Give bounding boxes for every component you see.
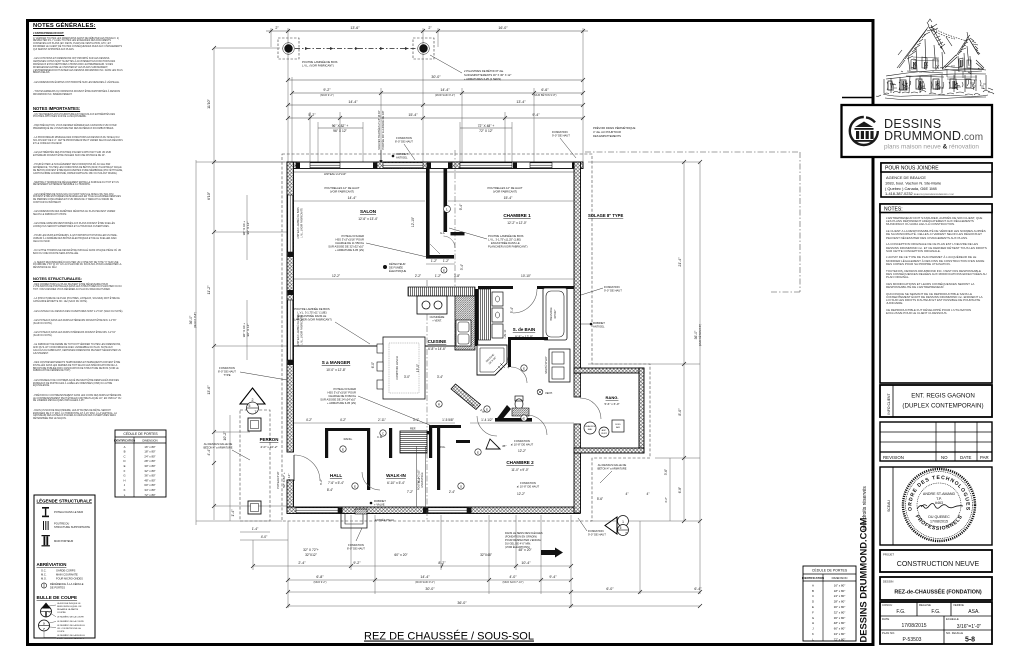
svg-text:6'10": 6'10" (207, 191, 211, 200)
svg-text:K: K (124, 488, 126, 492)
svg-text:9'-2": 9'-2" (323, 88, 331, 92)
dash-dot overhang line top right (585, 152, 800, 292)
svg-text:+ ARMATURES 6-#5 (2 SENS): + ARMATURES 6-#5 (2 SENS) (464, 77, 501, 81)
svg-text:NOTES:: NOTES: (884, 207, 903, 213)
legende structurale box (34, 495, 95, 640)
svg-text:COUPE: COUPE (57, 631, 65, 633)
pier P2 dashed square (413, 38, 434, 59)
svg-text:34" x 80": 34" x 80" (144, 488, 155, 492)
svg-text:8'-0" DE HAUT: 8'-0" DE HAUT (395, 140, 413, 144)
pier P2 circle (419, 44, 427, 52)
window openings in walls (white with sill lines) (296, 163, 552, 513)
svg-text:36'-0": 36'-0" (694, 330, 698, 339)
annex RANG walls (574, 368, 644, 453)
svg-text:H: H (812, 621, 814, 625)
svg-text:6'-6": 6'-6" (541, 88, 549, 92)
symbol poteau dans le mur (42, 507, 49, 517)
svg-text:E: E (486, 407, 488, 411)
svg-text:60"X32": 60"X32" (554, 310, 557, 319)
svg-text:PLAN NO.: PLAN NO. (882, 631, 895, 635)
left vertical dim lines (196, 48, 292, 525)
kitchen counter top band (408, 287, 475, 296)
svg-text:LING.: LING. (438, 445, 446, 449)
svg-text:REALISE: REALISE (919, 603, 931, 607)
svg-text:M.C.: M.C. (41, 573, 47, 577)
svg-text:4" dia. AU POURTOUR: 4" dia. AU POURTOUR (593, 130, 621, 134)
svg-text:PLANCHER (VOIR FABRICANT): PLANCHER (VOIR FABRICANT) (488, 245, 528, 249)
svg-text:STRUCTURE SUPPORTANTE: STRUCTURE SUPPORTANTE (54, 525, 90, 529)
svg-text:7'-6" x 5'-4": 7'-6" x 5'-4" (328, 481, 344, 485)
svg-text:POUTRE LAMINÉE DE BOIS: POUTRE LAMINÉE DE BOIS (302, 59, 338, 64)
svg-text:POTEAU D'ACIER: POTEAU D'ACIER (334, 387, 357, 391)
svg-text:CUISINE: CUISINE (428, 339, 447, 344)
svg-text:POUR NOUS JOINDRE: POUR NOUS JOINDRE (885, 166, 939, 172)
svg-text:36" x 80": 36" x 80" (144, 474, 155, 478)
svg-text:2 PILASTRES DE BÉTON 8" dia.: 2 PILASTRES DE BÉTON 8" dia. (464, 68, 504, 73)
svg-text:30" x 80": 30" x 80" (144, 464, 155, 468)
pour nous joindre box (881, 163, 992, 197)
closet U walls center (426, 168, 465, 259)
svg-text:2'-4": 2'-4" (298, 561, 306, 565)
svg-text:E: E (812, 605, 814, 609)
svg-text:5'-6" x 6'-0": 5'-6" x 6'-0" (604, 402, 619, 406)
svg-text:LE NUMÉRO DE LA COUPE: LE NUMÉRO DE LA COUPE (57, 620, 84, 623)
svg-text:DIMENSION: DIMENSION (832, 576, 848, 580)
svg-text:+ ARMATURE 6-#5 (2S): + ARMATURE 6-#5 (2S) (335, 248, 364, 252)
svg-text:5'-2": 5'-2" (308, 113, 316, 117)
svg-text:2": 2" (428, 26, 432, 30)
svg-text:60" x 80": 60" x 80" (834, 627, 846, 631)
section bubble right bottom (605, 517, 617, 534)
svg-text:F.G.: F.G. (931, 609, 940, 615)
door arc chambre2 (477, 416, 497, 436)
toilet (515, 399, 523, 409)
svg-text:IDENTIFICATION: IDENTIFICATION (114, 439, 135, 443)
svg-text:#463: #463 (935, 501, 943, 505)
svg-text:DES EMPATTEMENTS: DES EMPATTEMENTS (593, 134, 621, 138)
svg-text:3'-2": 3'-2" (664, 497, 668, 503)
svg-text:LINTEAU 2-2"x10": LINTEAU 2-2"x10" (324, 172, 346, 176)
svg-text:VERIFIE: VERIFIE (953, 603, 964, 607)
svg-text:LÉGENDE STRUCTURALE: LÉGENDE STRUCTURALE (37, 499, 92, 504)
svg-text:SOLIVES TRAITÉES 2"x 8" @ 16": SOLIVES TRAITÉES 2"x 8" @ 16" (376, 110, 381, 150)
svg-text:SUR EMPATTEMENTS 30" X 30" X 1: SUR EMPATTEMENTS 30" X 30" X 12" (464, 73, 511, 77)
svg-text:14'-4": 14'-4" (348, 196, 357, 200)
svg-text:AU-DESSUS DALLE DE: AU-DESSUS DALLE DE (204, 442, 233, 446)
fondation note chambre2 (511, 439, 534, 447)
svg-text:FONDATION: FONDATION (348, 543, 364, 547)
svg-text:(MUR 9'-2"): (MUR 9'-2") (313, 581, 326, 584)
svg-text:CHARGE DE 11 550 lbs: CHARGE DE 11 550 lbs (335, 241, 365, 245)
svg-text:A: A (124, 445, 126, 449)
shower DOUCHE (477, 345, 507, 375)
exterior wall top (287, 162, 583, 169)
svg-text:PROJET: PROJET (883, 553, 894, 557)
svg-text:L.V.L. (VOIR FABRICANT): L.V.L. (VOIR FABRICANT) (301, 208, 304, 238)
svg-text:11'-0" x 9'-0": 11'-0" x 9'-0" (511, 468, 529, 472)
svg-text:52" X 82" +: 52" X 82" + (282, 472, 286, 488)
svg-text:DRUMMOND.com: DRUMMOND.com (884, 129, 983, 143)
svg-text:ANDRE ST-AMAND: ANDRE ST-AMAND (923, 492, 956, 496)
svg-text:12'-2" x 12'-0": 12'-2" x 12'-0" (507, 221, 527, 225)
svg-text:34" x 80": 34" x 80" (834, 632, 846, 636)
svg-text:1'-2": 1'-2" (431, 259, 437, 263)
svg-text:POUTRE LAMINÉE DE BOIS: POUTRE LAMINÉE DE BOIS (294, 306, 330, 311)
svg-text:plans maison neuve & rénovatio: plans maison neuve & rénovation (884, 144, 979, 151)
svg-text:13'-6": 13'-6" (350, 26, 360, 30)
svg-text:AU-DESSUS DALLE DE: AU-DESSUS DALLE DE (598, 463, 627, 467)
svg-text:E: E (523, 366, 525, 370)
svg-text:REGARDE LA PARTIE: REGARDE LA PARTIE (57, 608, 79, 611)
svg-text:7: 7 (255, 410, 257, 414)
svg-text:+ ARMATURE 6-#5 (2S): + ARMATURE 6-#5 (2S) (327, 401, 356, 405)
room label CHAMBRE 1 (503, 213, 531, 225)
svg-text:FONDATION: FONDATION (588, 529, 604, 533)
svg-text:L.V.L. 3-1,75"x11" (1,8E): L.V.L. 3-1,75"x11" (1,8E) (297, 311, 326, 315)
svg-text:PLANCHER (VOIR FABRICANT): PLANCHER (VOIR FABRICANT) (292, 318, 332, 322)
door arc walk-in (362, 472, 380, 490)
svg-text:D: D (123, 459, 125, 463)
svg-text:DANS LE SENS DES FLÈCHES: DANS LE SENS DES FLÈCHES (505, 530, 543, 535)
svg-text:48" x 80": 48" x 80" (834, 621, 846, 625)
svg-text:POTEAU DANS LE MUR: POTEAU DANS LE MUR (54, 510, 83, 514)
svg-text:2'-10": 2'-10" (499, 418, 507, 422)
svg-text:1'-2": 1'-2" (435, 274, 441, 278)
svg-text:(MUR SAIN 9'-2"): (MUR SAIN 9'-2") (415, 581, 435, 584)
svg-text:ENCASTRÉE: ENCASTRÉE (421, 472, 424, 488)
svg-text:ENTRÉE P'EAU: ENTRÉE P'EAU (375, 517, 394, 522)
svg-text:ABRÉVIATION: ABRÉVIATION (37, 562, 67, 567)
top dimension extension lines (271, 28, 583, 162)
svg-text:ASP.: ASP. (602, 429, 607, 432)
svg-text:CONSTRUCTION NEUVE: CONSTRUCTION NEUVE (897, 561, 980, 568)
house sketch top right (876, 19, 994, 100)
svg-text:6'-8": 6'-8" (678, 487, 682, 493)
svg-text:14'-4": 14'-4" (440, 88, 450, 92)
svg-text:DE PORTES: DE PORTES (50, 585, 65, 589)
bottom dim labels (252, 527, 703, 605)
svg-text:ASA.: ASA. (968, 609, 979, 615)
svg-text:9'-0" DE HAUT: 9'-0" DE HAUT (604, 289, 622, 293)
svg-text:A: A (812, 583, 814, 587)
svg-text:E: E (523, 416, 525, 420)
svg-text:S a MANGER: S a MANGER (322, 360, 351, 365)
svg-text:30" x 80": 30" x 80" (834, 605, 846, 609)
svg-text:PERRON: PERRON (260, 437, 279, 442)
svg-text:6'-8": 6'-8" (316, 575, 324, 579)
logo box (842, 105, 993, 157)
svg-text:17/08/2015: 17/08/2015 (930, 520, 948, 524)
stair/ref hatched (400, 431, 427, 453)
fondation 9-0 note right top (552, 130, 570, 138)
svg-text:IDENTIFICATION: IDENTIFICATION (802, 576, 824, 580)
right vertical dim lines (588, 162, 700, 521)
svg-text:30'-0": 30'-0" (431, 75, 441, 79)
svg-text:L.V.L. 3-1,75"x11,25" (1,8E): L.V.L. 3-1,75"x11,25" (1,8E) (488, 238, 521, 242)
room label CUISINE (428, 339, 447, 351)
divider line salon / dining (293, 345, 385, 347)
angled wall hall/chambre2 (451, 384, 481, 410)
svg-text:NO: NO (941, 455, 948, 460)
right bottom small dims (597, 492, 650, 501)
svg-text:60" x 20": 60" x 20" (394, 553, 408, 557)
svg-text:G.A.: G.A. (440, 231, 445, 235)
exterior wall left (287, 162, 294, 452)
poutrelles labels (324, 186, 522, 194)
svg-text:POUTRELLES 12" DE HAUT: POUTRELLES 12" DE HAUT (487, 186, 522, 190)
svg-text:FOUR MICRO-ONDES: FOUR MICRO-ONDES (56, 577, 83, 581)
poteau acier note left (328, 234, 364, 252)
svg-text:DU QUEBEC: DU QUEBEC (928, 515, 950, 519)
entry items (374, 499, 386, 507)
bottom dimension lines (240, 515, 700, 608)
revision table (880, 422, 992, 461)
svg-text:DESSINS DRUMMOND.COM: DESSINS DRUMMOND.COM (858, 517, 869, 642)
svg-text:5: 5 (620, 526, 622, 530)
svg-text:BULLE DE COUPE: BULLE DE COUPE (37, 595, 78, 600)
svg-text:K: K (812, 632, 814, 636)
svg-text:11'-2": 11'-2" (207, 285, 211, 295)
svg-text:+ VENT.: + VENT. (432, 319, 442, 323)
svg-text:PRÉVOIR DRAIN PÉRIMÉTRIQUE: PRÉVOIR DRAIN PÉRIMÉTRIQUE (593, 125, 636, 130)
svg-text:12'-2": 12'-2" (517, 492, 525, 496)
svg-text:28" x 80": 28" x 80" (144, 459, 155, 463)
svg-text:CHAMBRE 1: CHAMBRE 1 (503, 213, 531, 218)
svg-text:POUTRE LAMINÉE DE BOIS: POUTRE LAMINÉE DE BOIS (488, 233, 524, 238)
svg-text:(VOIR FABRICANT): (VOIR FABRICANT) (493, 190, 517, 194)
fondation 9-0 note bottom right (588, 529, 606, 537)
cedule de portes table right (802, 566, 856, 641)
svg-text:5'-4": 5'-4" (510, 307, 514, 313)
svg-text:11'10": 11'10" (207, 98, 211, 108)
svg-text:D: D (812, 600, 814, 604)
svg-text:COUPÉE: COUPÉE (57, 611, 66, 614)
svg-text:18" x 80": 18" x 80" (144, 450, 155, 454)
svg-text:28" x 80": 28" x 80" (834, 600, 846, 604)
svg-text:12'-2": 12'-2" (332, 274, 340, 278)
svg-text:6'-8" x 14'-6": 6'-8" x 14'-6" (428, 347, 446, 351)
cedule de portes table left (114, 430, 166, 497)
svg-text:G.C.: G.C. (41, 569, 47, 573)
svg-text:12'-6" x 13'-4": 12'-6" x 13'-4" (358, 217, 378, 221)
svg-text:VENT.: VENT. (545, 391, 553, 395)
room label CHAMBRE 2 (506, 460, 534, 472)
svg-text:a/ 10'-8" DE HAUT: a/ 10'-8" DE HAUT (517, 485, 540, 489)
svg-text:REVISION: REVISION (883, 455, 904, 460)
annex room label RANG (604, 395, 619, 406)
robinet antigel right (593, 321, 605, 329)
svg-text:96" X 12": 96" X 12" (246, 222, 250, 235)
svg-text:C: C (812, 594, 814, 598)
svg-text:32" x 80": 32" x 80" (834, 610, 846, 614)
svg-text:3'-6": 3'-6" (664, 469, 668, 475)
svg-text:POUR RESPECTER L'ENIVAU: POUR RESPECTER L'ENIVAU (505, 538, 541, 542)
svg-text:(MUR SAIN 7'-10"): (MUR SAIN 7'-10") (503, 581, 524, 584)
svg-text:1'-5 5/8": 1'-5 5/8" (442, 418, 454, 422)
svg-text:36'-0": 36'-0" (189, 315, 193, 324)
projet box (880, 550, 992, 572)
dessin box (880, 577, 992, 600)
svg-text:5-8: 5-8 (965, 637, 975, 644)
svg-text:WALK-IN: WALK-IN (386, 473, 406, 478)
svg-text:HALL: HALL (330, 473, 342, 478)
svg-text:RANG.: RANG. (606, 395, 619, 400)
info client box (880, 385, 992, 417)
poteau acier note 2 (320, 387, 356, 405)
interior joist lines under top wall (294, 171, 574, 173)
svg-text:17/08/2015: 17/08/2015 (901, 623, 926, 629)
svg-text:a/ 10'-8" DE HAUT: a/ 10'-8" DE HAUT (511, 443, 534, 447)
svg-text:SALON: SALON (360, 209, 377, 214)
svg-text:DU GEL DE 4'-0" MIN.: DU GEL DE 4'-0" MIN. (505, 542, 531, 546)
svg-text:FONDATION: FONDATION (219, 366, 235, 370)
svg-text:45°: 45° (502, 444, 507, 448)
svg-text:DATE: DATE (882, 617, 889, 621)
svg-text:1'-2": 1'-2" (443, 259, 449, 263)
notes box (880, 204, 992, 383)
svg-text:CONCU: CONCU (882, 603, 892, 607)
hall dim row (294, 422, 574, 424)
svg-text:EAU: EAU (588, 428, 593, 431)
svg-text:P-53503: P-53503 (903, 637, 922, 643)
svg-text:8'-2": 8'-2" (438, 561, 446, 565)
svg-text:CHARGE DE 8 660 lbs: CHARGE DE 8 660 lbs (328, 394, 356, 398)
svg-text:1'-4 1/2": 1'-4 1/2" (481, 418, 493, 422)
svg-text:32"X12": 32"X12" (305, 553, 318, 557)
svg-text:ROBINET: ROBINET (593, 321, 605, 325)
svg-text:9'-4": 9'-4" (549, 575, 557, 579)
fondation callout top (395, 136, 413, 144)
svg-text:9'-0" DE HAUT: 9'-0" DE HAUT (588, 533, 606, 537)
svg-text:1'-4": 1'-4" (231, 509, 235, 517)
right notes column text (886, 217, 987, 319)
svg-text:10'-10": 10'-10" (521, 274, 531, 278)
svg-text:CÉDULE DE PORTES: CÉDULE DE PORTES (123, 431, 158, 436)
svg-text:96" X 12": 96" X 12" (246, 324, 250, 337)
svg-text:M.O.: M.O. (41, 577, 47, 581)
svg-text:REZ DE CHAUSSÉE / SOUS-SOL: REZ DE CHAUSSÉE / SOUS-SOL (364, 630, 534, 643)
svg-text:2'-4": 2'-4" (449, 490, 455, 494)
left vertical dim labels (189, 98, 291, 516)
svg-text:F.G.: F.G. (896, 609, 905, 615)
svg-text:DATE: DATE (960, 455, 971, 460)
prevoir drain note right (593, 125, 636, 138)
svg-text:3'-6": 3'-6" (517, 418, 523, 422)
svg-text:(FONDATION EN GRADIN): (FONDATION EN GRADIN) (505, 535, 537, 539)
svg-text:24" x 80": 24" x 80" (834, 594, 846, 598)
svg-text:LA FLÈCHE INDIQUE LE: LA FLÈCHE INDIQUE LE (57, 602, 81, 605)
annex fixtures (584, 422, 596, 434)
svg-text:(MUR SAIN 9'-2"): (MUR SAIN 9'-2") (435, 93, 455, 97)
svg-text:10'-0" x 12'-8": 10'-0" x 12'-8" (326, 368, 346, 372)
svg-text:1: 1 (622, 520, 624, 524)
svg-text:SUR ASSISE DE 32"x32"x10": SUR ASSISE DE 32"x32"x10" (328, 245, 364, 249)
svg-text:6'-0": 6'-0" (371, 362, 375, 368)
svg-text:10'-4": 10'-4" (521, 561, 531, 565)
svg-text:72" X 12": 72" X 12" (479, 129, 494, 133)
svg-text:POUTRE DU: POUTRE DU (54, 522, 69, 526)
svg-text:POTEAU 6"x6": POTEAU 6"x6" (276, 471, 280, 488)
svg-text:BOIS: BOIS (615, 424, 621, 426)
svg-text:24" x 80": 24" x 80" (144, 454, 155, 458)
svg-text:5: 5 (249, 404, 251, 408)
svg-text:ENT. REGIS GAGNON: ENT. REGIS GAGNON (911, 393, 975, 400)
svg-text:CHAUFFE: CHAUFFE (585, 425, 596, 428)
svg-text:COMPTOIR LUNCH: COMPTOIR LUNCH (395, 356, 399, 380)
svg-text:4'-0" x 10'-2": 4'-0" x 10'-2" (260, 445, 277, 449)
svg-text:10'-2": 10'-2" (223, 431, 227, 441)
symbol mur porteur (42, 535, 50, 546)
svg-text:18" x 80": 18" x 80" (834, 589, 846, 593)
svg-text:96" X 82" +: 96" X 82" + (332, 124, 349, 128)
svg-text:BAIGNOIRE: BAIGNOIRE (550, 307, 553, 321)
svg-text:POUTRELLES 12" DE HAUT: POUTRELLES 12" DE HAUT (324, 186, 359, 190)
detecteur de fumee (383, 265, 387, 269)
svg-text:ANTIGEL: ANTIGEL (396, 156, 408, 160)
sceau box (880, 467, 992, 545)
svg-text:F: F (124, 469, 126, 473)
svg-text:60" x 80": 60" x 80" (144, 483, 155, 487)
svg-text:CÉDULE DE PORTES: CÉDULE DE PORTES (812, 568, 848, 573)
svg-text:VANITÉ 54"x22": VANITÉ 54"x22" (545, 356, 548, 373)
bath interior walls (508, 337, 548, 340)
svg-text:POTEAU D'ACIER: POTEAU D'ACIER (342, 234, 365, 238)
svg-text:3'-8": 3'-8" (454, 274, 460, 278)
svg-text:14'-4": 14'-4" (348, 100, 358, 104)
circled L symbol (444, 206, 451, 213)
door arc perron (294, 455, 320, 481)
svg-text:PAR: PAR (980, 455, 989, 460)
svg-text:C: C (123, 454, 125, 458)
poutre laminee note bottom-left (292, 306, 332, 322)
svg-text:NO. FEUILLE: NO. FEUILLE (946, 631, 963, 635)
svg-text:OÙ L'ON RETROUVE LA: OÙ L'ON RETROUVE LA (57, 627, 81, 630)
svg-text:3'-4": 3'-4" (460, 264, 464, 270)
svg-text:B: B (124, 450, 126, 454)
perron (248, 418, 261, 514)
svg-text:4'-0": 4'-0" (509, 575, 517, 579)
svg-text:3/16"=1'-0": 3/16"=1'-0" (957, 624, 982, 630)
main sheet frame (28, 21, 874, 645)
robinet antigel note (396, 152, 408, 160)
svg-text:4": 4" (626, 492, 629, 496)
au-dessus dalle note left (203, 442, 232, 450)
svg-text:AIR: AIR (616, 426, 620, 429)
svg-text:4": 4" (647, 492, 650, 496)
svg-text:E: E (354, 484, 356, 488)
svg-text:GARDE-CORPS: GARDE-CORPS (56, 569, 76, 573)
left notes column text (33, 23, 123, 103)
svg-text:H: H (123, 478, 125, 482)
svg-text:E: E (124, 464, 126, 468)
svg-text:DESSIN: DESSIN (883, 580, 893, 584)
frame notch line (842, 97, 874, 99)
laundry striped block (479, 289, 491, 340)
svg-text:RANG.: RANG. (344, 437, 353, 441)
svg-text:4'-2": 4'-2" (306, 418, 312, 422)
svg-text:6'-0": 6'-0" (606, 587, 614, 591)
svg-text:16'-0": 16'-0" (498, 26, 508, 30)
foundation dashed outline around building (240, 154, 650, 521)
svg-text:16" x 80": 16" x 80" (144, 445, 155, 449)
svg-text:13'-6": 13'-6" (207, 385, 211, 395)
svg-text:16" x 80": 16" x 80" (834, 583, 846, 587)
svg-text:SUR ASSISE DE 24"x24"x10": SUR ASSISE DE 24"x24"x10" (320, 398, 356, 402)
svg-text:ROBINET: ROBINET (374, 499, 386, 503)
interior dim rows y262 y277 (294, 264, 574, 279)
svg-text:9'-4": 9'-4" (532, 113, 540, 117)
svg-text:MAIN COURANTE: MAIN COURANTE (56, 573, 78, 577)
